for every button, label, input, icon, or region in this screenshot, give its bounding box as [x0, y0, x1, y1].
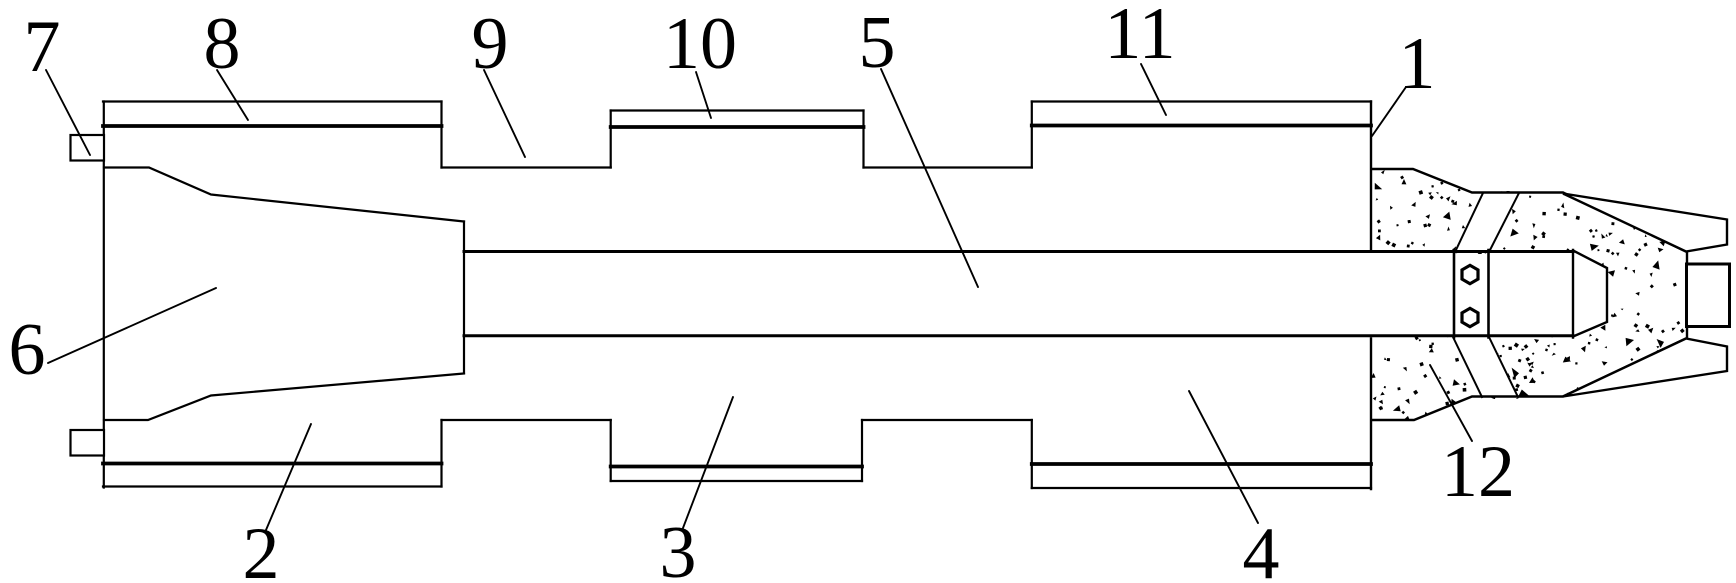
- svg-text:4: 4: [1243, 513, 1280, 583]
- svg-text:8: 8: [204, 3, 241, 85]
- svg-text:11: 11: [1104, 0, 1175, 75]
- svg-text:6: 6: [9, 309, 46, 391]
- svg-text:5: 5: [859, 2, 896, 84]
- svg-text:7: 7: [24, 6, 61, 88]
- svg-text:2: 2: [243, 513, 280, 583]
- svg-text:9: 9: [472, 3, 509, 85]
- svg-text:3: 3: [660, 512, 697, 583]
- svg-text:12: 12: [1441, 431, 1515, 513]
- svg-text:1: 1: [1399, 23, 1436, 105]
- svg-text:10: 10: [663, 3, 737, 85]
